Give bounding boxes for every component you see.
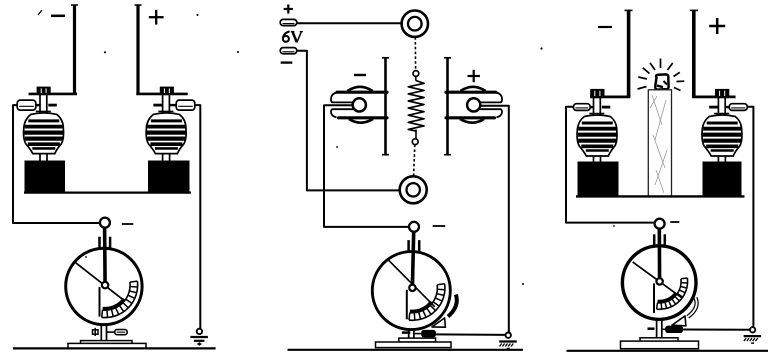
scan speckles: [38, 10, 615, 285]
splint rod (panel 3): [648, 90, 671, 197]
wire (C1 to resistor, dotted): [414, 37, 416, 70]
ground (panel 2): [499, 333, 517, 349]
plate electrode P5 (negative plate, panel 3): [625, 10, 633, 98]
wire (left plate clamp to galvanometer, panel 2): [324, 105, 409, 227]
binding post C1 (top, heater circuit): [402, 11, 428, 37]
wire (right plate to ground, panel 3): [747, 107, 753, 327]
wire (right plate to ground, panel 1): [195, 105, 201, 329]
support shelf line (panel 3): [576, 195, 745, 197]
plate electrode P1 (negative plate, panel 1): [71, 5, 78, 95]
galvanometer G2 (panel 2): [372, 222, 456, 348]
label 6V (battery voltage): [283, 31, 303, 42]
label + (panel 1 positive): [149, 10, 164, 25]
plate foot (right, panel 3): [692, 96, 735, 99]
wire (left plate to galvanometer, panel 3): [566, 107, 655, 223]
bench line (panel 3): [567, 350, 768, 352]
ground (panel 3): [744, 327, 762, 343]
plate electrode P4 (positive plate, panel 2): [444, 58, 451, 156]
tick mark near knob (panel 1): [122, 223, 134, 225]
plate foot (right, panel 1): [136, 93, 187, 96]
label + (panel 3 positive): [709, 18, 725, 34]
label - (panel 3 negative): [598, 26, 612, 28]
clamp (left plate, panel 2): [331, 87, 387, 123]
battery terminal (positive): [280, 19, 297, 25]
tick mark near knob (panel 3): [670, 221, 679, 223]
wire (battery - to bottom binding post): [297, 51, 400, 191]
ground (panel 1): [190, 329, 208, 346]
wire (galvanometer to ground, panel 2): [435, 333, 505, 336]
resistor R1 (heated wire): [408, 76, 424, 139]
plate electrode P2 (positive plate, panel 1): [135, 5, 142, 95]
plate foot (left, panel 3): [590, 96, 630, 99]
tick mark near knob (panel 2): [433, 225, 446, 227]
glowing splint rays (panel 3): [638, 59, 685, 91]
plate foot (left, panel 1): [29, 93, 77, 96]
plate electrode P3 (negative plate, panel 2): [382, 58, 389, 156]
label + (battery positive): [284, 4, 293, 13]
galvanometer G3 (panel 3): [621, 219, 699, 349]
wire (resistor to C2, dotted): [414, 145, 415, 177]
clamp (right plate, panel 2): [446, 87, 502, 123]
binding post and insulator (left, panel 3): [573, 90, 618, 197]
binding post and insulator (left, panel 1): [17, 87, 64, 192]
node (resistor bottom): [412, 139, 418, 145]
binding post C2 (bottom, heater circuit): [400, 176, 427, 203]
wire (right plate clamp to ground, panel 2): [481, 106, 509, 333]
glowing splint tip (panel 3): [655, 74, 668, 89]
plate electrode P6 (positive plate, panel 3): [690, 10, 698, 98]
binding post and insulator (right, panel 3): [702, 90, 747, 197]
battery terminal (negative): [280, 48, 297, 54]
label - (panel 1 negative): [51, 15, 65, 18]
wire (galvanometer to ground, panel 3): [682, 329, 750, 331]
bench line (panel 1): [13, 347, 216, 349]
support shelf line (panel 1): [24, 192, 191, 194]
node (resistor top): [413, 71, 419, 77]
label - (battery negative): [281, 61, 293, 63]
wire (left plate to galvanometer, panel 1): [13, 105, 100, 223]
label + (panel 2 positive): [468, 70, 480, 82]
wire (battery + to top binding post): [297, 22, 402, 24]
label - (panel 2 negative): [354, 74, 366, 76]
bench line (panel 2): [288, 349, 523, 351]
galvanometer G1 (panel 1): [66, 218, 146, 349]
binding post and insulator (right, panel 1): [146, 87, 195, 192]
